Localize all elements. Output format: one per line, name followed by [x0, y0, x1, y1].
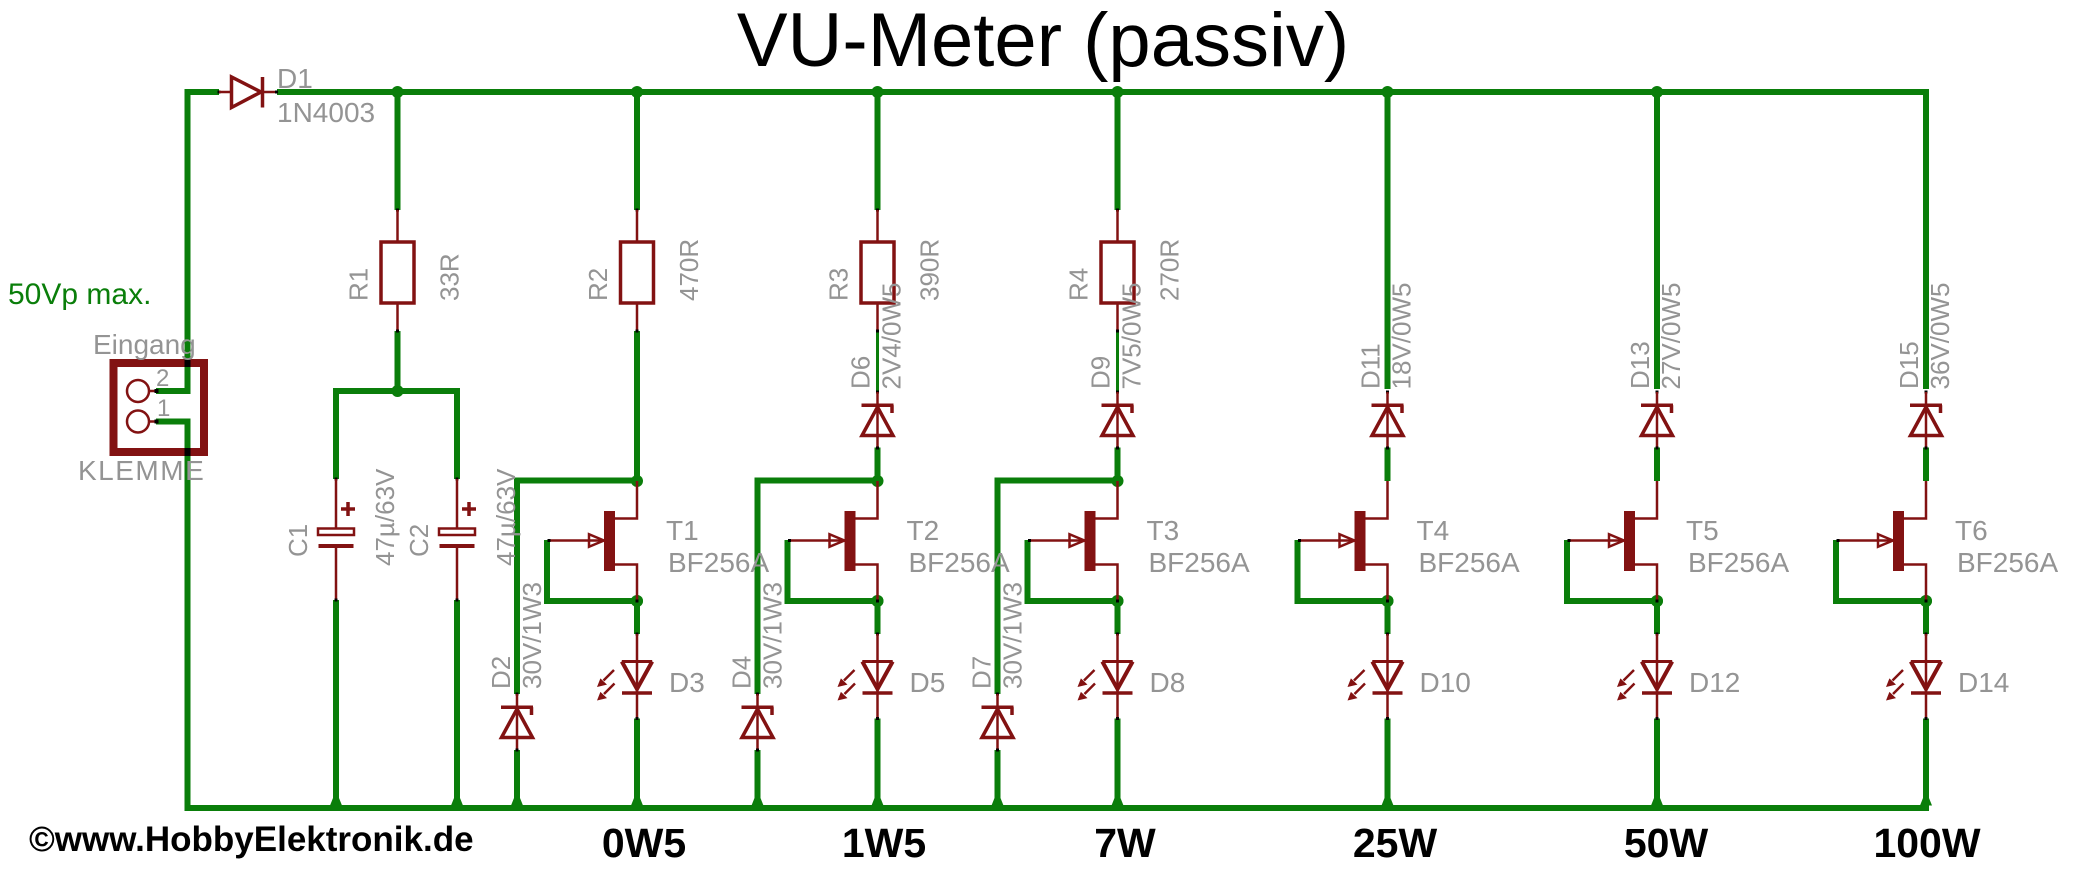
svg-text:50Vp max.: 50Vp max. — [8, 278, 151, 311]
svg-text:KLEMME: KLEMME — [78, 455, 205, 486]
svg-text:270R: 270R — [1155, 239, 1185, 301]
svg-text:47µ/63V: 47µ/63V — [491, 468, 521, 566]
svg-text:BF256A: BF256A — [1688, 547, 1789, 578]
svg-text:T1: T1 — [666, 515, 699, 546]
svg-text:2V4/0W5: 2V4/0W5 — [877, 283, 907, 390]
svg-text:27V/0W5: 27V/0W5 — [1656, 283, 1686, 390]
svg-text:T3: T3 — [1147, 515, 1180, 546]
svg-text:D4: D4 — [727, 656, 757, 689]
svg-text:T6: T6 — [1955, 515, 1988, 546]
svg-text:D15: D15 — [1894, 341, 1924, 389]
svg-text:30V/1W3: 30V/1W3 — [998, 582, 1028, 689]
svg-text:D10: D10 — [1420, 667, 1471, 698]
svg-text:50W: 50W — [1624, 820, 1709, 866]
svg-text:D7: D7 — [967, 656, 997, 689]
svg-text:BF256A: BF256A — [1149, 547, 1250, 578]
svg-text:BF256A: BF256A — [909, 547, 1010, 578]
svg-text:©www.HobbyElektronik.de: ©www.HobbyElektronik.de — [29, 820, 474, 859]
svg-text:D14: D14 — [1958, 667, 2009, 698]
svg-text:T2: T2 — [907, 515, 940, 546]
svg-text:C1: C1 — [283, 524, 313, 557]
svg-text:100W: 100W — [1873, 820, 1980, 866]
svg-text:D13: D13 — [1625, 341, 1655, 389]
svg-text:1W5: 1W5 — [842, 820, 926, 866]
svg-text:47µ/63V: 47µ/63V — [370, 468, 400, 566]
svg-text:D6: D6 — [846, 356, 876, 389]
svg-text:30V/1W3: 30V/1W3 — [517, 582, 547, 689]
svg-text:1: 1 — [157, 395, 170, 422]
svg-text:R4: R4 — [1064, 268, 1094, 301]
svg-text:D12: D12 — [1689, 667, 1740, 698]
svg-text:18V/0W5: 18V/0W5 — [1387, 283, 1417, 390]
svg-text:R3: R3 — [824, 268, 854, 301]
svg-text:1N4003: 1N4003 — [277, 97, 375, 128]
svg-text:BF256A: BF256A — [1419, 547, 1520, 578]
svg-text:D9: D9 — [1086, 356, 1116, 389]
svg-text:33R: 33R — [435, 253, 465, 301]
svg-text:BF256A: BF256A — [1957, 547, 2058, 578]
svg-text:36V/0W5: 36V/0W5 — [1925, 283, 1955, 390]
svg-text:25W: 25W — [1353, 820, 1438, 866]
svg-text:0W5: 0W5 — [602, 820, 686, 866]
svg-text:Eingang: Eingang — [93, 329, 196, 360]
svg-text:R1: R1 — [344, 268, 374, 301]
svg-text:D1: D1 — [277, 63, 313, 94]
svg-text:390R: 390R — [915, 239, 945, 301]
svg-text:7W: 7W — [1094, 820, 1156, 866]
svg-text:7V5/0W5: 7V5/0W5 — [1117, 283, 1147, 390]
svg-text:30V/1W3: 30V/1W3 — [758, 582, 788, 689]
svg-text:D5: D5 — [910, 667, 946, 698]
svg-text:D8: D8 — [1150, 667, 1186, 698]
svg-text:R2: R2 — [583, 268, 613, 301]
svg-text:D11: D11 — [1356, 343, 1386, 389]
svg-text:470R: 470R — [674, 239, 704, 301]
svg-text:BF256A: BF256A — [668, 547, 769, 578]
svg-text:D3: D3 — [669, 667, 705, 698]
svg-text:2: 2 — [156, 365, 169, 392]
svg-text:VU-Meter (passiv): VU-Meter (passiv) — [737, 0, 1349, 83]
svg-text:D2: D2 — [486, 656, 516, 689]
svg-text:T5: T5 — [1686, 515, 1719, 546]
svg-text:C2: C2 — [404, 524, 434, 557]
svg-text:T4: T4 — [1417, 515, 1450, 546]
